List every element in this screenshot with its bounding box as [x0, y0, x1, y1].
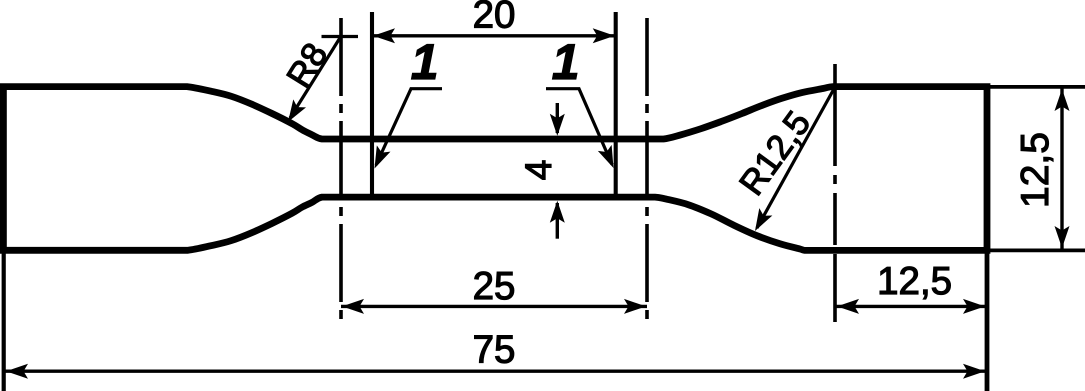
- svg-text:1: 1: [552, 34, 580, 90]
- svg-text:25: 25: [473, 265, 516, 308]
- svg-text:4: 4: [518, 160, 559, 181]
- svg-text:75: 75: [473, 329, 516, 372]
- svg-text:12,5: 12,5: [877, 260, 952, 303]
- svg-text:12,5: 12,5: [1014, 132, 1057, 208]
- svg-text:20: 20: [473, 0, 516, 37]
- svg-text:1: 1: [411, 34, 439, 90]
